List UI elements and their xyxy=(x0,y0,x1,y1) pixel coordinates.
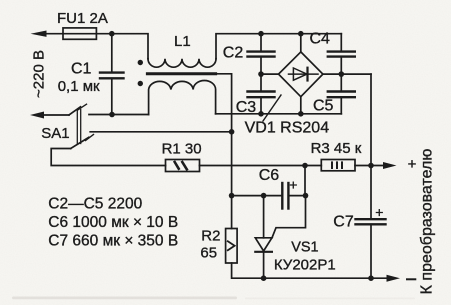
svg-text:C6: C6 xyxy=(259,167,280,184)
switch SA1 blade 2 xyxy=(71,137,89,148)
switch SA1 mechanical link xyxy=(76,110,78,144)
inductor L1 bottom winding (3 arcs) xyxy=(149,80,216,114)
capacitor C3 xyxy=(260,74,262,92)
svg-text:0,1 мк: 0,1 мк xyxy=(58,78,100,95)
L1 core xyxy=(147,72,215,75)
output arrow + xyxy=(383,162,397,169)
svg-text:C2: C2 xyxy=(223,45,244,62)
switch SA1 contact tick 1 xyxy=(78,104,87,110)
R3 power marks (III) xyxy=(331,162,333,168)
svg-text:К преобразователю: К преобразователю xyxy=(419,149,436,295)
svg-text:L1: L1 xyxy=(174,33,191,50)
svg-text:+: + xyxy=(375,204,383,220)
wire: bridge right stub to right column xyxy=(323,73,371,75)
switch SA1 blade 1 xyxy=(69,107,81,115)
switch SA1 contact tick 2 xyxy=(86,135,94,141)
svg-text:C2—C5 2200: C2—C5 2200 xyxy=(48,196,142,213)
node: R2 top / VS1 anode wire junction xyxy=(229,193,235,199)
node: junction on R2 column (SA1 wire) xyxy=(229,129,235,135)
svg-text:R1 30: R1 30 xyxy=(162,141,202,158)
wire: C7 bottom to rail xyxy=(370,224,372,278)
capacitor C1 xyxy=(111,34,113,73)
fuse FU1 xyxy=(63,28,96,39)
output arrow - (bottom) xyxy=(387,275,401,282)
wire: bridge left stub xyxy=(261,73,279,75)
capacitor C2 xyxy=(260,34,262,52)
wire: SA1 pole2 down to R1 wire xyxy=(51,149,165,166)
R2 power mark (V rotated) xyxy=(228,241,235,250)
resistor R1 xyxy=(166,160,200,172)
svg-text:C1: C1 xyxy=(71,61,92,78)
svg-text:C3: C3 xyxy=(236,99,257,116)
capacitor C6 xyxy=(281,183,283,209)
node: gate column top junction xyxy=(302,163,308,169)
svg-text:КУ202Р1: КУ202Р1 xyxy=(274,257,336,274)
R1 power marks (two diagonals) xyxy=(175,162,179,169)
thyristor VS1 anode lead xyxy=(263,196,265,238)
node: VS1 anode junction xyxy=(261,193,267,199)
wire: R1 to R3 xyxy=(200,165,322,167)
svg-text:SA1: SA1 xyxy=(41,125,69,142)
svg-text:R2: R2 xyxy=(201,227,220,244)
wire: L1 core tap down the R2 column xyxy=(216,74,232,229)
svg-text:~220 В: ~220 В xyxy=(31,50,48,98)
svg-text:C6 1000 мк × 10 В: C6 1000 мк × 10 В xyxy=(48,214,178,231)
phase dot bottom winding xyxy=(138,81,143,86)
phase dot top winding xyxy=(138,60,143,65)
node: VS1 cathode junction xyxy=(261,275,267,281)
wire: gate step to VS1 xyxy=(272,196,306,238)
node: gate column / C6 junction xyxy=(303,193,309,199)
node: bridge right junction (C4/C5 mid) xyxy=(339,71,345,77)
svg-text:+: + xyxy=(408,156,417,173)
bridge diode: cathode bar xyxy=(306,68,308,81)
thyristor VS1 cathode lead xyxy=(263,252,265,278)
wire: bridge bottom stub xyxy=(300,97,302,114)
capacitor C4 xyxy=(340,34,342,52)
capacitor C7 xyxy=(356,218,386,220)
wire: L1 top right to top rail xyxy=(216,34,341,59)
node: C7 bottom junction xyxy=(368,275,374,281)
svg-text:C5: C5 xyxy=(313,98,334,115)
node: C1 bottom junction xyxy=(109,112,115,118)
label - (minus output) xyxy=(407,278,415,280)
wire: R3 to + output xyxy=(355,165,384,167)
svg-text:C7 660 мк × 350 В: C7 660 мк × 350 В xyxy=(48,232,178,249)
input terminal arrow bottom (~220 V line 2) xyxy=(30,112,44,119)
wire: arrow to fuse to node A xyxy=(44,33,112,35)
wire: bridge top stub xyxy=(300,34,302,52)
mid rail: L1 bottom right to C5 bottom xyxy=(216,113,342,115)
svg-text:VD1 RS204: VD1 RS204 xyxy=(245,120,330,137)
node: bridge bottom junction xyxy=(298,111,304,117)
resistor R2 xyxy=(226,229,238,264)
bridge rectifier VD1 diamond xyxy=(279,52,323,97)
wire: right column (rectifier + to C7 top) xyxy=(370,74,372,219)
svg-text:FU1 2A: FU1 2A xyxy=(57,10,108,27)
wire: R2 bottom to bottom rail xyxy=(232,263,388,278)
wire: SA1 contact2 to R2 column xyxy=(90,131,231,133)
node: R3 right / +output junction xyxy=(368,163,374,169)
svg-text:65: 65 xyxy=(200,244,217,261)
bridge diode: triangle xyxy=(293,68,307,80)
wire: gate column xyxy=(304,166,306,196)
thyristor VS1 triangle xyxy=(255,238,272,251)
node: bridge top junction xyxy=(298,31,304,37)
wire: anode wire to C6 left plate xyxy=(232,195,283,197)
scan smudge bottom xyxy=(12,297,237,300)
inductor L1 top winding (4 arcs) xyxy=(148,59,216,67)
wire: arrow to switch SA1 xyxy=(41,114,69,116)
svg-text:C4: C4 xyxy=(310,31,331,48)
node: bridge left junction (C2/C3 mid) xyxy=(258,71,264,77)
thyristor VS1 cathode bar xyxy=(255,251,272,253)
wire: node A to L1 top winding xyxy=(112,34,148,59)
node: C2 top junction xyxy=(258,31,264,37)
leader line to VD1 label xyxy=(263,95,281,121)
bridge diode: line xyxy=(289,73,319,75)
resistor R3 xyxy=(321,160,355,171)
capacitor C5 xyxy=(340,74,342,91)
svg-text:R3 45 к: R3 45 к xyxy=(311,140,362,157)
svg-text:C7: C7 xyxy=(333,214,354,231)
wire: C6 right plate to gate column xyxy=(288,195,305,197)
node: C3 bottom junction xyxy=(258,111,264,117)
node A junction dot (C1 top) xyxy=(109,31,115,37)
input terminal arrow top (~220 V line 1) xyxy=(31,31,47,37)
wire: SA1 pole1 to C1 bottom xyxy=(89,114,149,116)
svg-text:+: + xyxy=(289,177,297,193)
svg-text:VS1: VS1 xyxy=(291,240,318,256)
